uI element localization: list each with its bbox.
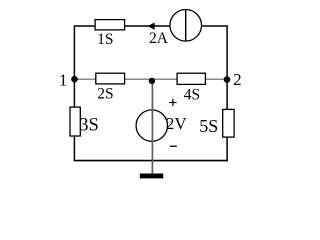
wire middle (node 1 to node 2) — [74, 78, 227, 80]
ground — [140, 174, 163, 179]
resistor 4S — [177, 73, 205, 103]
svg-text:4S: 4S — [184, 86, 200, 103]
wire right vertical — [226, 25, 228, 161]
svg-text:1S: 1S — [97, 31, 113, 48]
svg-text:2A: 2A — [149, 30, 169, 47]
wire top — [74, 25, 227, 27]
current source 2A — [148, 9, 202, 46]
wire bottom — [74, 160, 228, 162]
junction node (middle) — [149, 78, 155, 84]
voltage source 2V — [136, 81, 187, 174]
node 1 — [59, 70, 78, 89]
svg-text:2V: 2V — [166, 114, 188, 133]
resistor 2S — [96, 73, 125, 102]
svg-text:2: 2 — [233, 70, 242, 89]
svg-text:5S: 5S — [199, 116, 218, 136]
resistor 3S — [70, 107, 99, 136]
svg-text:1: 1 — [59, 70, 68, 89]
resistor 5S — [199, 109, 234, 137]
node 2 — [224, 70, 242, 89]
wire left vertical — [73, 25, 75, 161]
svg-text:2S: 2S — [97, 85, 113, 102]
resistor 1S — [95, 20, 125, 48]
svg-text:3S: 3S — [79, 115, 99, 135]
